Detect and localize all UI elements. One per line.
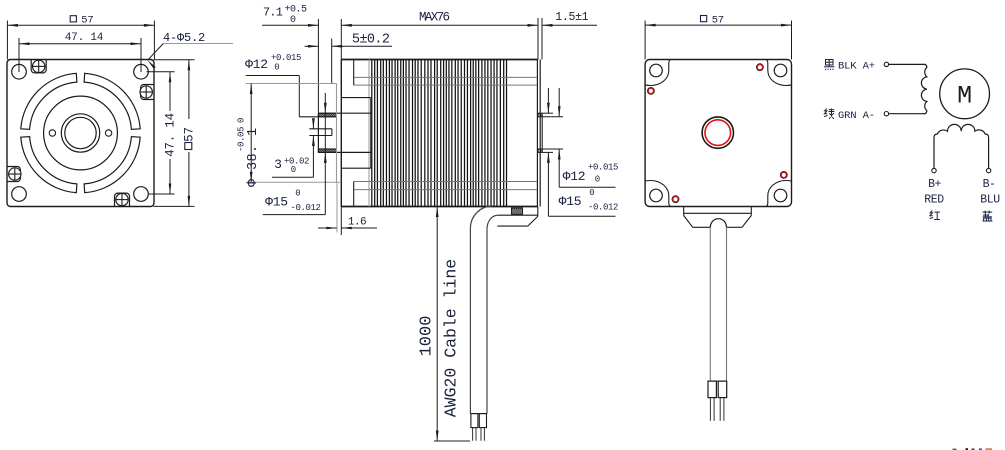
svg-text:0: 0 <box>295 189 300 199</box>
wiring label RED <box>924 194 944 207</box>
wiring terminal B- <box>986 168 990 172</box>
rear bolt hole TR <box>774 64 787 77</box>
dim 47.14 top line <box>19 42 141 45</box>
front mounting hole 1 <box>12 64 27 79</box>
dim 1000 line <box>436 207 439 442</box>
dim square57 right label <box>182 119 196 152</box>
leader 4-phi5.2 label <box>163 31 205 45</box>
wiring lead B+ <box>933 138 935 169</box>
svg-text:5±0.2: 5±0.2 <box>352 33 390 48</box>
front cooling slot arc 3 <box>21 73 77 129</box>
svg-text:47. 14: 47. 14 <box>65 32 104 44</box>
rear corner ear cut BR <box>766 181 792 207</box>
side cable sheath lines <box>470 228 487 413</box>
front assembly screw left <box>7 167 21 182</box>
svg-text:+0.015: +0.015 <box>271 53 301 63</box>
side cable wire ends <box>473 428 485 441</box>
side view shaft phi15 lines <box>318 113 370 152</box>
svg-text:0: 0 <box>237 118 247 123</box>
svg-text:47. 14: 47. 14 <box>164 113 178 157</box>
label 1000 rotated <box>418 316 437 357</box>
dim 47.14 right line <box>169 72 172 194</box>
dim 1.6 label <box>348 216 366 228</box>
side view shaft bore phi12 lines <box>299 117 336 149</box>
svg-text:3: 3 <box>274 157 282 172</box>
svg-text:1.6: 1.6 <box>348 216 366 228</box>
wiring label GRN A- <box>824 109 875 122</box>
dim top line MAX76 <box>341 24 538 27</box>
svg-text:57: 57 <box>81 14 93 26</box>
wiring label lan blue <box>982 211 992 222</box>
svg-text:Φ12: Φ12 <box>245 57 268 72</box>
front mounting hole 2 <box>134 64 149 79</box>
svg-text:+0.015: +0.015 <box>588 163 618 173</box>
front small hole left <box>49 130 55 136</box>
side view body bottom edge <box>341 206 538 208</box>
side cable clamp hatched block <box>505 208 529 214</box>
svg-text:B-: B- <box>983 178 996 191</box>
dim MAX76 label <box>419 11 450 25</box>
dim 7.1 label <box>263 5 307 26</box>
svg-text:0: 0 <box>290 15 296 26</box>
rear bolt hole BL <box>650 189 663 202</box>
side cable inner bend <box>487 215 497 229</box>
svg-text:-0.05: -0.05 <box>237 127 247 152</box>
rear cable gland arch <box>710 219 726 228</box>
rear view cover outline <box>645 60 791 207</box>
svg-text:Φ 38. 1: Φ 38. 1 <box>246 127 261 187</box>
side cable housing outline <box>497 207 538 227</box>
svg-text:GRN A-: GRN A- <box>838 110 875 122</box>
side view shaft end face <box>317 113 319 152</box>
label phi12 rear <box>563 163 618 185</box>
svg-text:0: 0 <box>589 188 594 198</box>
rear screw hole red top <box>757 64 764 71</box>
svg-text:-0.012: -0.012 <box>290 203 320 213</box>
dim phi15 rear leader <box>547 88 616 216</box>
dim 1000 bottom extension <box>434 440 470 442</box>
side view flange face <box>340 60 342 207</box>
label phi15 front <box>265 189 320 214</box>
dim 5 line <box>305 45 392 48</box>
wiring lead B- <box>988 138 990 169</box>
side view shaft section hatch top <box>315 113 342 117</box>
side view stator lamination fins <box>372 60 507 207</box>
side view shaft slot lines <box>309 129 332 136</box>
rear corner ear cut TR <box>766 60 792 86</box>
dim phi38.1 extension lines gray <box>246 84 341 183</box>
svg-text:57: 57 <box>182 127 196 142</box>
front small hole right <box>105 130 111 136</box>
wiring label BLU <box>980 194 1000 207</box>
svg-text:-0.012: -0.012 <box>588 203 618 213</box>
svg-text:7.1: 7.1 <box>263 5 283 19</box>
dim phi15 front leader <box>263 93 327 215</box>
leader 4-phi5.2 line <box>148 44 234 69</box>
rear screw hole red right <box>780 172 787 179</box>
wiring phase B coil <box>934 124 989 137</box>
dim 1.6 line <box>318 227 377 230</box>
rear cable ferrules <box>708 381 727 398</box>
rear center red circle <box>705 120 731 146</box>
dim 5 extension line <box>331 39 333 84</box>
svg-text:1.5±1: 1.5±1 <box>555 11 588 24</box>
wiring label B+ <box>928 178 941 191</box>
svg-text:0: 0 <box>595 175 600 185</box>
dim phi38.1 line <box>250 84 253 183</box>
wiring label BLK A+ <box>824 60 875 73</box>
dim top line 7.1 <box>262 24 318 27</box>
dim top extension lines <box>318 18 542 113</box>
svg-text:BLU: BLU <box>980 194 1000 207</box>
motor symbol M circle <box>940 69 990 119</box>
svg-text:Φ12: Φ12 <box>563 169 586 184</box>
label phi38.1 rotated <box>237 118 262 187</box>
svg-text:0: 0 <box>291 165 296 175</box>
side view flange steps <box>353 60 355 207</box>
rear dim square57 line <box>645 24 791 27</box>
leader phi12 front <box>246 76 300 117</box>
front shaft bore circle <box>65 117 96 148</box>
side cable outer bend <box>470 206 492 228</box>
svg-text:BLK A+: BLK A+ <box>838 61 875 73</box>
svg-text:1000: 1000 <box>418 316 437 357</box>
side view stator left face gray <box>368 60 370 207</box>
front boss circle <box>61 114 99 152</box>
svg-text:57: 57 <box>712 14 724 26</box>
dim 5 label <box>352 33 390 48</box>
rear bolt hole TL <box>650 64 663 77</box>
dim top line 1.5 tail <box>542 24 597 27</box>
corner cutoff text marks <box>953 448 993 450</box>
dim 3 leader <box>272 118 315 177</box>
side view body top edge <box>341 59 538 61</box>
front cooling slot arc 4 <box>84 73 140 129</box>
front assembly screw top <box>31 59 46 72</box>
label phi12 front <box>245 53 301 73</box>
rear cable lines <box>710 227 726 381</box>
front pilot circle <box>44 96 118 170</box>
svg-text:B+: B+ <box>928 178 941 191</box>
front view motor face plate outline <box>7 60 154 207</box>
wiring terminal A- <box>884 112 888 116</box>
dim 3 label <box>274 157 309 176</box>
rear screw hole red left <box>648 88 655 95</box>
label AWG20 rotated <box>442 259 461 417</box>
side view flange bearing bore lines <box>341 98 371 169</box>
side view pilot boss face gray <box>336 84 338 183</box>
side view body shoulder lines <box>354 77 538 189</box>
wiring terminal A+ <box>884 62 888 66</box>
wiring lead A+ <box>889 63 926 65</box>
dim square57 right extension lines <box>154 60 195 207</box>
dim 47.14 top label <box>65 32 104 44</box>
svg-text:AWG20 Cable line: AWG20 Cable line <box>442 259 461 417</box>
side view rear stub shaft <box>537 113 563 152</box>
svg-text:MAX76: MAX76 <box>419 11 450 25</box>
rear corner ear cut BL <box>645 181 671 207</box>
rear dim extension lines <box>645 21 791 60</box>
front cooling slot arc 1 <box>84 137 140 193</box>
dim 47.14 right label <box>164 111 178 159</box>
dim 47.14 top extension lines <box>19 38 141 72</box>
rear cable wires <box>710 398 724 421</box>
wiring label hong red <box>930 211 940 220</box>
dim square57 top line <box>7 24 154 27</box>
dim square57 right line <box>188 60 191 207</box>
rear cable housing <box>684 207 752 228</box>
front assembly screw bottom <box>115 193 130 206</box>
front cooling slot arc 2 <box>21 137 77 193</box>
side view shaft section hatch bottom <box>315 149 342 153</box>
svg-text:Φ15: Φ15 <box>265 194 288 209</box>
wiring phase A coil <box>921 64 926 113</box>
dim square57 top extension lines <box>7 21 154 60</box>
motor symbol M letter <box>957 82 972 111</box>
dim square57 top label <box>70 14 93 26</box>
dim 47.14 right extension lines <box>147 72 175 194</box>
rear center boss circle <box>702 117 733 148</box>
side view rear stub corner circles <box>538 114 541 153</box>
rear dim square57 label <box>701 14 724 26</box>
svg-text:Φ15: Φ15 <box>559 194 582 209</box>
wiring lead A- <box>889 113 926 115</box>
svg-text:+0.02: +0.02 <box>284 157 309 167</box>
dim 1.6 extension lines <box>337 182 341 235</box>
rear corner ear cut TL <box>645 60 671 86</box>
svg-text:M: M <box>957 82 972 111</box>
dim phi12 rear leader <box>558 88 616 187</box>
front assembly screw right <box>140 85 154 100</box>
dim 1.5 label <box>555 11 588 24</box>
wiring label B- <box>983 178 996 191</box>
rear bolt hole BR <box>774 189 787 202</box>
front mounting hole 3 <box>12 187 27 202</box>
label phi15 rear <box>559 188 618 213</box>
side cable ferrules <box>471 414 487 428</box>
svg-text:0: 0 <box>274 63 279 73</box>
rear screw hole red bottom <box>672 196 679 203</box>
side view rear cover double line <box>537 60 540 207</box>
svg-text:RED: RED <box>924 194 944 207</box>
front mounting hole 4 <box>134 187 149 202</box>
wiring terminal B+ <box>932 168 936 172</box>
